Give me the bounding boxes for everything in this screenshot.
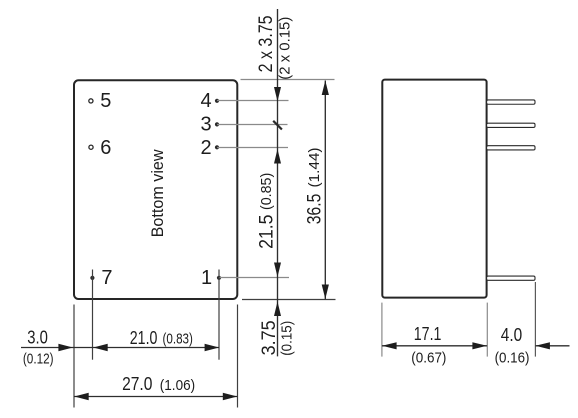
pin 5 hole: [89, 99, 93, 103]
pin 3 leader wire: [217, 124, 288, 126]
lower dimension line: [21, 347, 219, 349]
height dimension line: [324, 81, 326, 300]
svg-text:3.75: 3.75: [258, 320, 280, 355]
svg-text:21.5: 21.5: [255, 215, 277, 249]
side pin 2: [487, 146, 535, 150]
side view body outline: [382, 80, 486, 298]
pin 1 pad dot: [217, 276, 221, 280]
pin 1 leader wire: [219, 277, 289, 279]
arrow down to pin 1 line: [274, 263, 281, 278]
svg-text:2: 2: [200, 137, 211, 159]
side pin 1: [487, 276, 535, 280]
svg-text:(0.15): (0.15): [280, 321, 296, 356]
arrow up to bottom edge line: [274, 302, 281, 317]
svg-text:(0.85): (0.85): [258, 173, 275, 210]
arrow up to top line: [322, 81, 329, 96]
pin 4 pad dot: [215, 99, 219, 103]
arrow right to pin 1 line: [205, 344, 220, 352]
pin 7 extension line: [92, 270, 94, 360]
arrow up to pin 2 line: [274, 149, 281, 164]
svg-text:3.0: 3.0: [27, 328, 48, 348]
side pin 4: [487, 100, 535, 104]
side right extension line: [486, 303, 488, 357]
svg-text:3: 3: [200, 113, 211, 135]
pin 7 pad dot: [90, 276, 94, 280]
svg-text:(0.16): (0.16): [495, 349, 530, 366]
svg-text:(0.12): (0.12): [23, 350, 54, 367]
arrow right to right edge: [223, 393, 238, 401]
svg-text:(0.67): (0.67): [411, 349, 446, 366]
svg-text:4.0: 4.0: [501, 325, 522, 345]
pin 2 pad dot: [215, 145, 219, 149]
pin 3 pad dot: [215, 122, 219, 126]
right edge extension line: [237, 305, 239, 408]
svg-text:2 x 3.75: 2 x 3.75: [255, 15, 277, 72]
arrow left to pin 7 line: [93, 344, 108, 352]
svg-text:Bottom view: Bottom view: [148, 149, 167, 238]
svg-text:5: 5: [100, 90, 111, 112]
pin length dimension line: [535, 345, 569, 347]
svg-text:7: 7: [101, 267, 112, 289]
arrow left to pin end line: [535, 342, 550, 349]
pitch tick mark: [273, 121, 282, 130]
arrow down to bottom line: [322, 285, 329, 300]
arrow left to left edge: [74, 393, 89, 401]
pin 4 leader wire: [217, 100, 289, 102]
svg-text:17.1: 17.1: [414, 324, 442, 344]
side left extension line: [381, 303, 383, 357]
pin end extension line: [534, 282, 536, 357]
pin 2 leader wire: [217, 147, 288, 149]
svg-text:(2 x 0.15): (2 x 0.15): [278, 17, 294, 80]
svg-text:4: 4: [200, 90, 211, 112]
svg-text:(1.06): (1.06): [160, 377, 195, 394]
svg-text:1: 1: [201, 267, 212, 289]
pin pitch dimension line: [277, 9, 279, 356]
arrow right to left edge: [58, 344, 73, 352]
svg-text:27.0: 27.0: [122, 374, 152, 394]
pin 1 extension line: [218, 270, 220, 360]
arrow down to pin 4 line: [274, 87, 281, 102]
top extension line: [241, 79, 335, 81]
svg-text:21.0: 21.0: [130, 328, 158, 348]
bottom extension line: [242, 299, 336, 301]
svg-text:(1.44): (1.44): [306, 147, 323, 187]
svg-text:6: 6: [100, 137, 111, 159]
svg-text:36.5: 36.5: [303, 194, 325, 225]
depth dimension line: [382, 345, 487, 347]
pin 6 hole: [89, 145, 93, 149]
arrow right to side right edge: [472, 342, 487, 349]
bottom view body outline: [74, 80, 237, 299]
svg-text:(0.83): (0.83): [163, 331, 193, 348]
left edge extension line: [73, 305, 75, 408]
arrow left to side left edge: [382, 342, 397, 349]
side pin 3: [487, 123, 535, 127]
width dimension line: [74, 396, 238, 398]
